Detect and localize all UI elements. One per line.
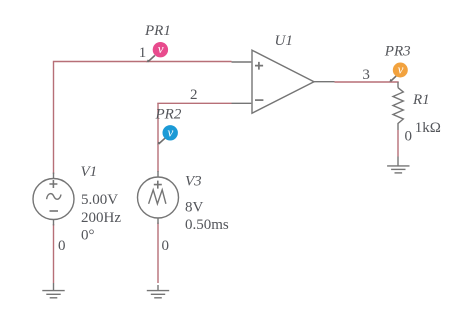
wire net2 horizontal to op-amp - input (157, 102, 231, 104)
ground under V3 (147, 285, 169, 298)
svg-text:v: v (158, 41, 164, 56)
ground under V1 (42, 283, 64, 298)
wire net2 vertical to V3 (157, 103, 159, 172)
probe PR1 (147, 41, 168, 63)
probe PR2 (157, 124, 178, 145)
wire V1 top vertical (53, 62, 55, 174)
source V1 (33, 173, 74, 226)
svg-text:200Hz: 200Hz (81, 210, 121, 226)
op-amp U1 (232, 50, 335, 113)
wire net3 op-amp output horizontal (335, 81, 399, 83)
wire R1 bottom vertical (397, 130, 399, 157)
svg-text:PR2: PR2 (155, 107, 182, 123)
wire V3 bottom vertical (157, 223, 159, 284)
svg-text:R1: R1 (412, 92, 430, 108)
resistor R1 (393, 82, 403, 130)
svg-text:8V: 8V (185, 200, 204, 216)
probe PR3 (389, 62, 407, 83)
ground under R1 (387, 157, 409, 173)
svg-text:0.50ms: 0.50ms (185, 217, 229, 233)
svg-text:v: v (168, 124, 174, 139)
svg-text:U1: U1 (275, 33, 293, 49)
svg-text:1: 1 (139, 45, 147, 61)
svg-text:0: 0 (405, 128, 413, 144)
svg-text:0°: 0° (81, 227, 95, 243)
svg-text:V3: V3 (185, 173, 202, 189)
svg-text:PR3: PR3 (384, 44, 411, 60)
svg-text:PR1: PR1 (144, 23, 171, 39)
svg-text:3: 3 (362, 67, 370, 83)
svg-text:2: 2 (190, 87, 198, 103)
svg-text:v: v (398, 62, 404, 77)
wire V1 bottom vertical (53, 224, 55, 283)
svg-text:5.00V: 5.00V (81, 192, 118, 208)
source V3 (138, 171, 179, 224)
svg-text:0: 0 (162, 238, 170, 254)
svg-text:V1: V1 (81, 164, 98, 180)
wire net1 horizontal to op-amp + input (53, 61, 232, 63)
svg-text:1kΩ: 1kΩ (415, 120, 441, 136)
svg-text:0: 0 (58, 238, 66, 254)
